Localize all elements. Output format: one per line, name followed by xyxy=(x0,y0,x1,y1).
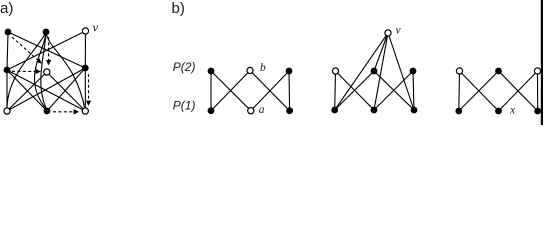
node T1 xyxy=(5,29,12,36)
node b1 MB (a) xyxy=(248,108,254,114)
node b3 P1M xyxy=(495,108,502,115)
node b2 v xyxy=(385,30,391,36)
wire b2 P2R-P1M xyxy=(374,71,413,110)
wire b1 MT-RB xyxy=(250,71,290,111)
wire b2 v-P1L xyxy=(335,33,388,110)
node b3 P1R xyxy=(534,108,541,115)
wire arc T2-B3 right bulge xyxy=(46,32,85,111)
wire arc T2-B2 innermost hugging M2 xyxy=(41,32,47,110)
node M3 xyxy=(82,65,89,72)
wire M3-B3 xyxy=(84,68,86,111)
wire b2 P2M-P1R xyxy=(374,71,414,110)
wire M2-B1 xyxy=(7,72,47,111)
wire dashed B2 to B3 xyxy=(53,111,78,113)
node b2 P2R xyxy=(410,68,417,75)
node b2 P1M xyxy=(371,107,378,114)
node b3 P2L xyxy=(456,68,462,74)
svg-text:v: v xyxy=(93,21,99,35)
node b2 P2L xyxy=(332,68,338,74)
node b2 P2M xyxy=(371,68,378,75)
wire b2 P2R-P1R xyxy=(413,71,414,110)
border bar at right edge xyxy=(541,0,543,125)
wire b3 P2R-P1M xyxy=(499,71,538,111)
wire b2 v-P1R xyxy=(388,33,414,110)
wire M1-B1 xyxy=(6,70,8,111)
node b1 MT (b) xyxy=(247,67,253,73)
wire b1 RT-RB xyxy=(288,71,291,111)
wire M1-B2 xyxy=(7,70,47,111)
wire M3-B2 xyxy=(47,68,85,111)
wire b3 P2R-P1R xyxy=(537,71,539,111)
svg-text:P(2): P(2) xyxy=(173,60,196,74)
wire arc T2-B2 inner left bulge xyxy=(35,32,47,110)
wire dashed T1 to M2 xyxy=(12,37,41,63)
wire dashed M3 to B3 xyxy=(88,74,90,105)
node b1 RT xyxy=(286,68,293,75)
node b1 LB xyxy=(208,107,215,114)
wire b2 P2L-P1L xyxy=(334,71,337,110)
wire dashed T2 to M2 xyxy=(48,37,50,65)
wire b3 P2L-P1M xyxy=(460,71,499,111)
wire T1-M3 xyxy=(8,32,85,68)
node b2 P1L xyxy=(331,107,338,114)
wire arc T2-B1 outer left bulge xyxy=(7,32,46,111)
node b3 P2M xyxy=(495,68,502,75)
node T2 xyxy=(43,29,50,36)
svg-text:a: a xyxy=(259,104,265,116)
svg-text:b: b xyxy=(260,62,266,74)
svg-text:a): a) xyxy=(0,0,13,17)
node b3 P2R xyxy=(534,68,540,74)
wire M2-B3 xyxy=(47,72,86,111)
wire b3 P2M-P1R xyxy=(499,71,538,111)
wire b2 v-P2M xyxy=(374,33,388,71)
node M1 xyxy=(4,67,11,74)
wire b1 MT-LB xyxy=(211,71,250,111)
svg-text:b): b) xyxy=(172,0,185,17)
wire b1 RT-MB xyxy=(251,71,289,111)
node B3 xyxy=(82,108,88,114)
wire b1 LT-LB xyxy=(210,71,212,111)
wire b2 P2L-P1M xyxy=(336,71,375,110)
node b1 LT xyxy=(208,68,215,75)
node B2 xyxy=(44,108,51,115)
wire b3 P2L-P1L xyxy=(458,71,461,111)
graph b1 xyxy=(211,71,290,111)
node b2 P1R xyxy=(411,107,418,114)
wire dashed M1 to M2 xyxy=(12,70,40,72)
wire T1-M1 xyxy=(7,32,8,70)
wire b3 P2M-P1L xyxy=(459,71,499,111)
wire v-M1 xyxy=(7,31,86,70)
graph b2 xyxy=(335,33,414,110)
svg-text:P(1): P(1) xyxy=(173,98,196,112)
wire v-M3 xyxy=(84,31,86,68)
wire M1-B3 xyxy=(7,70,85,111)
wire b2 P2M-P1L xyxy=(335,71,374,110)
svg-text:x: x xyxy=(509,104,516,116)
node b1 RB xyxy=(286,107,293,114)
node b3 P1L xyxy=(455,108,462,115)
node v xyxy=(82,28,88,34)
wire b2 v-P1M xyxy=(374,33,388,110)
wire M3-B1 xyxy=(7,68,85,111)
svg-text:v: v xyxy=(396,25,402,37)
node M2 xyxy=(44,69,50,75)
wire b1 LT-MB xyxy=(211,71,251,111)
node B1 xyxy=(4,108,10,114)
graph b3 xyxy=(459,71,538,111)
